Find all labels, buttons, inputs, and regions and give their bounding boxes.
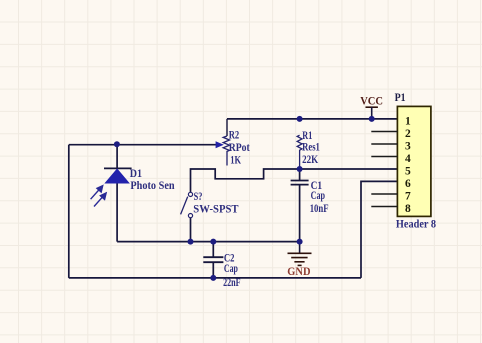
photodiode D1 cathode bar: [104, 167, 132, 169]
svg-text:3: 3: [405, 140, 411, 152]
junction dot R1 top: [297, 116, 303, 122]
svg-text:P1: P1: [395, 90, 406, 104]
switch S? lever: [181, 197, 188, 215]
VCC power bar: [366, 107, 378, 119]
wire switch-top to pin5 with hop: [191, 169, 398, 192]
wire R2 top lead corner: [226, 119, 228, 136]
capacitor C1 plates: [291, 181, 309, 185]
svg-text:6: 6: [405, 178, 411, 190]
wire left vertical: [68, 145, 70, 278]
svg-text:Header 8: Header 8: [396, 216, 436, 230]
svg-text:GND: GND: [287, 264, 310, 278]
svg-text:Cap: Cap: [224, 261, 238, 275]
junction dot photo node at D1 top: [114, 141, 120, 147]
svg-text:1K: 1K: [230, 152, 241, 166]
wire D1 branch upper: [116, 145, 118, 169]
junction dot C2 top: [210, 239, 216, 245]
switch S? circle bottom: [188, 214, 192, 218]
wire C2 leads: [212, 242, 214, 278]
junction dot VCC: [369, 116, 375, 122]
svg-text:8: 8: [405, 203, 411, 215]
junction dot R1 bottom / pin5: [297, 166, 303, 172]
resistor R2 (RPot zigzag): [223, 136, 229, 166]
wire right riser to pin 6: [361, 181, 397, 278]
svg-text:22K: 22K: [302, 152, 319, 166]
svg-text:Photo Sen: Photo Sen: [130, 178, 174, 192]
wire top-left net (photo node): [69, 144, 217, 146]
ground symbol: [288, 242, 312, 266]
header P1 body: [397, 106, 431, 216]
wiper arrow of R2: [216, 141, 224, 148]
capacitor C2 plates: [203, 257, 223, 262]
junction dot C2 bottom: [210, 275, 216, 281]
svg-text:2: 2: [405, 128, 411, 140]
wire D1 branch lower: [116, 183, 118, 241]
svg-text:1: 1: [405, 115, 411, 127]
junction dot switch bottom: [188, 239, 194, 245]
svg-text:7: 7: [405, 190, 411, 202]
svg-text:22nF: 22nF: [223, 275, 241, 289]
resistor R1 zigzag: [297, 135, 302, 169]
svg-text:5: 5: [405, 165, 411, 177]
wire C1 leads: [299, 169, 301, 242]
junction dot gnd node: [297, 239, 303, 245]
photodiode light arrow 1: [91, 185, 103, 199]
wire VCC net top: [227, 118, 397, 120]
photodiode light arrow 2: [94, 193, 106, 207]
svg-text:10nF: 10nF: [310, 201, 329, 215]
wire switch bottom: [190, 218, 192, 242]
svg-text:VCC: VCC: [360, 94, 383, 108]
wire mid horizontal node: [117, 241, 300, 243]
photodiode D1 triangle: [105, 169, 128, 183]
svg-text:4: 4: [405, 153, 411, 165]
svg-text:SW-SPST: SW-SPST: [193, 201, 238, 215]
wire bottom: [69, 277, 361, 279]
switch S? circle top: [188, 192, 192, 196]
header pin stubs 2,3,4,7,8: [371, 132, 397, 207]
